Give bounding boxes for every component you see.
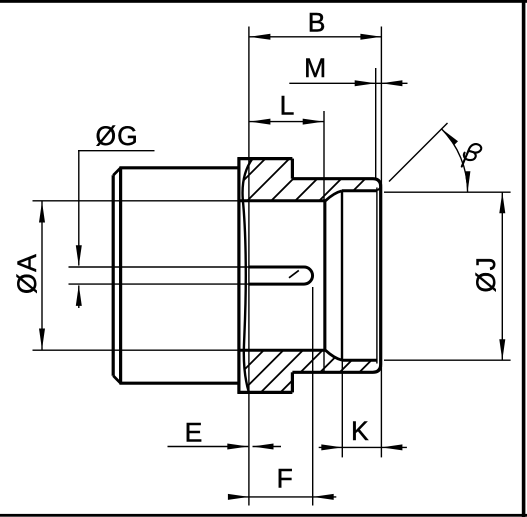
extension line tube end: [312, 287, 314, 506]
bore bottom edge: [239, 349, 326, 352]
inner tube bottom edge: [249, 283, 304, 286]
svg-text:F: F: [277, 464, 293, 494]
flange step bottom: [291, 372, 294, 392]
extension line socket mouth: [375, 68, 377, 179]
socket outer profile: [292, 179, 380, 373]
extension line left (flange face): [248, 27, 250, 506]
svg-text:B: B: [308, 7, 326, 37]
dimension K: [319, 416, 407, 451]
angle beta: [389, 123, 481, 192]
svg-text:L: L: [280, 90, 295, 120]
pipe bottom edge: [119, 382, 238, 385]
flange face: [237, 157, 240, 394]
flange top edge: [238, 157, 293, 160]
socket face inner edge: [376, 188, 378, 364]
dimension L: [249, 90, 323, 124]
bore top edge: [239, 199, 326, 202]
pipe body outer edge left: [112, 175, 115, 375]
counterbore top edge: [342, 189, 377, 192]
pipe end inner edge: [119, 168, 122, 383]
extension line right face lower: [380, 366, 382, 457]
dimension F: [228, 464, 336, 500]
inner tube rounded end: [304, 267, 313, 284]
dimension A (bore diameter): [12, 201, 240, 350]
dimension G (tube diameter): [69, 121, 250, 308]
bore fillet top: [325, 191, 342, 201]
svg-text:K: K: [351, 416, 369, 446]
bore shoulder edge: [341, 191, 343, 360]
extension line right face upper: [380, 27, 382, 186]
svg-text:ØG: ØG: [96, 121, 139, 151]
extension line shoulder: [341, 360, 343, 457]
dimension M: [289, 53, 407, 86]
flange bottom edge: [238, 391, 293, 394]
svg-text:M: M: [304, 53, 326, 83]
dimension J (socket diameter): [384, 192, 511, 360]
svg-text:ØJ: ØJ: [471, 256, 501, 293]
pipe top edge: [119, 166, 238, 169]
flange step top: [291, 159, 294, 179]
break line curve: [243, 159, 253, 393]
inner tube tick: [289, 270, 299, 277]
svg-text:E: E: [185, 417, 203, 447]
pipe end chamfer top: [113, 168, 120, 176]
inner tube top edge: [249, 266, 304, 269]
extension line socket depth: [323, 111, 325, 373]
svg-text:ØA: ØA: [12, 253, 42, 294]
counterbore bottom edge: [342, 359, 377, 362]
bore fillet bottom: [325, 350, 342, 360]
bore fillet start edge: [324, 201, 326, 350]
dimension E: [168, 417, 282, 449]
pipe end chamfer bottom: [113, 376, 120, 384]
dimension B: [249, 7, 381, 40]
